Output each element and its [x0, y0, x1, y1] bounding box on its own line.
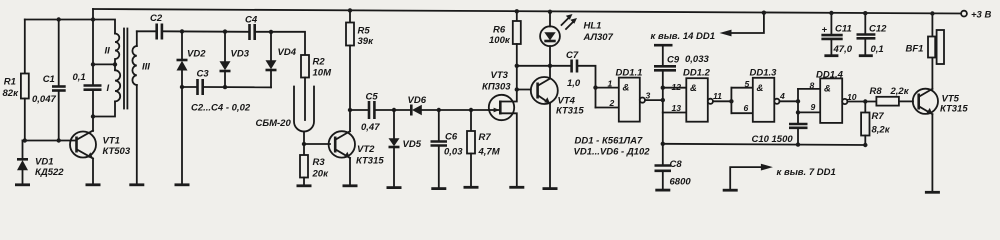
svg-text:DD1.3: DD1.3	[750, 67, 778, 78]
svg-text:R7: R7	[872, 111, 885, 122]
wire DD1.4 output	[847, 101, 876, 103]
svg-text:0,047: 0,047	[32, 94, 56, 105]
svg-text:к выв. 14 DD1: к выв. 14 DD1	[651, 31, 716, 42]
svg-text:R7: R7	[479, 132, 492, 143]
wire to pin 7 DD1 with arrow and ground	[730, 164, 836, 190]
svg-text:6: 6	[744, 103, 749, 113]
node DD1.3 inputs	[730, 88, 732, 114]
svg-text:13: 13	[672, 103, 682, 113]
gate DD1.2	[672, 67, 723, 121]
gate DD1.4	[810, 69, 857, 123]
diode VD3	[220, 32, 250, 88]
LED HL1 АЛ307	[540, 12, 613, 66]
svg-text:к выв. 7 DD1: к выв. 7 DD1	[777, 167, 836, 178]
svg-text:2,2к: 2,2к	[890, 86, 910, 97]
wire top rail +3V	[93, 9, 964, 14]
transistor VT4 КТ315	[531, 66, 585, 188]
capacitor C8	[655, 113, 692, 189]
wire multiplier bottom run	[182, 86, 196, 88]
node C1 top junction	[57, 17, 61, 21]
wire VD2 to ground	[181, 87, 183, 184]
svg-text:КТ315: КТ315	[940, 104, 968, 115]
wire VT2 collector up	[349, 110, 351, 131]
node collector junction with winding I bottom	[91, 114, 95, 118]
svg-text:0,03: 0,03	[444, 147, 463, 158]
svg-text:100к: 100к	[489, 35, 511, 46]
svg-text:20к: 20к	[312, 169, 330, 180]
transistor VT3 КП303	[482, 70, 517, 186]
capacitor C6	[431, 110, 464, 187]
svg-text:5: 5	[745, 79, 750, 89]
wire DD1.2 input pin 12	[663, 87, 687, 89]
svg-text:C1: C1	[43, 74, 55, 85]
ground C12	[859, 54, 873, 57]
ground VD1	[15, 183, 30, 186]
ground pin7 wire	[723, 189, 738, 192]
wire VT5 emitter to ground	[931, 114, 933, 191]
svg-text:10: 10	[847, 92, 857, 102]
svg-text:C3: C3	[197, 69, 210, 80]
wire VT2 emitter to ground	[349, 158, 351, 185]
ground VT1 emitter	[86, 183, 101, 186]
svg-text:C6: C6	[445, 132, 458, 143]
svg-text:82к: 82к	[3, 88, 20, 99]
diode VD1 КД522	[17, 141, 64, 184]
svg-text:КП303: КП303	[482, 82, 511, 93]
ground C11	[824, 54, 838, 57]
wire VT1 emitter to ground	[92, 159, 94, 184]
wire DD1.2 output to node	[713, 100, 731, 102]
svg-text:&: &	[690, 83, 697, 94]
svg-text:КТ503: КТ503	[103, 146, 131, 157]
svg-text:2: 2	[609, 98, 615, 108]
wire to VT2 base	[304, 143, 330, 145]
svg-text:КТ315: КТ315	[556, 106, 584, 117]
wire C5 run	[350, 109, 368, 111]
wire DD1.3 input pin 5	[731, 87, 752, 89]
svg-text:DD1.1: DD1.1	[616, 67, 643, 78]
capacitor C11	[821, 13, 852, 55]
gate DD1.3	[744, 67, 786, 122]
svg-text:DD1.2: DD1.2	[683, 67, 711, 78]
transistor VT1 КТ503	[70, 131, 131, 159]
svg-text:10M: 10M	[313, 68, 333, 79]
svg-text:VD4: VD4	[278, 47, 297, 58]
svg-text:0,033: 0,033	[685, 54, 709, 65]
node DD1.4 inputs / C10	[797, 89, 799, 123]
resistor R8	[870, 86, 914, 106]
svg-text:1500: 1500	[772, 134, 794, 145]
svg-text:R8: R8	[870, 86, 883, 97]
svg-text:C9: C9	[667, 55, 680, 66]
svg-text:VT1: VT1	[103, 136, 120, 147]
svg-text:R2: R2	[313, 57, 326, 68]
svg-text:I: I	[107, 83, 110, 94]
svg-text:9: 9	[811, 102, 816, 112]
node tube cathode / R3 / VT2 base	[302, 142, 306, 146]
svg-text:C12: C12	[869, 23, 887, 34]
capacitor 0,1	[73, 72, 102, 90]
svg-text:8,2к: 8,2к	[872, 125, 891, 136]
wire DD1.1 output	[645, 99, 663, 101]
svg-text:VD2: VD2	[187, 49, 206, 60]
transformer core	[123, 29, 125, 109]
diode VD5	[389, 110, 422, 186]
resistor R7 8,2к	[861, 102, 891, 146]
wire DD1.2 input pin 13	[663, 112, 687, 114]
svg-text:DD1 - К561ЛА7: DD1 - К561ЛА7	[575, 135, 644, 146]
wire C4 to R2 corner	[256, 32, 305, 55]
svg-text:C2: C2	[150, 13, 163, 24]
svg-text:VD1...VD6 - Д102: VD1...VD6 - Д102	[574, 147, 651, 158]
svg-text:+: +	[822, 24, 828, 35]
svg-text:VD1: VD1	[35, 157, 53, 168]
wire base bus R1/C1 to VT1	[23, 140, 77, 142]
svg-text:DD1.4: DD1.4	[816, 69, 844, 80]
wire DD1.4 input pin 8	[798, 88, 820, 90]
capacitor C12	[857, 13, 888, 55]
capacitor C2	[150, 13, 163, 40]
transformer T1 winding I	[107, 64, 121, 101]
wire C3 to VD4 bottom	[204, 86, 271, 88]
ground R7	[464, 186, 479, 189]
capacitor C4	[245, 15, 258, 41]
wire C7 to DD1.1 inputs	[578, 66, 595, 108]
svg-text:0,1: 0,1	[73, 72, 86, 83]
svg-text:КТ315: КТ315	[356, 156, 384, 167]
wire riser below 0,1 to VT1 collector	[92, 91, 94, 131]
capacitor C9	[654, 45, 709, 87]
svg-text:C7: C7	[566, 50, 579, 61]
svg-text:8: 8	[810, 81, 815, 91]
node junction riser/loop-top	[91, 17, 95, 21]
svg-text:II: II	[105, 46, 111, 57]
svg-text:HL1: HL1	[584, 21, 602, 32]
node +3V terminal	[961, 11, 967, 17]
wire C5 to VD6	[376, 109, 411, 111]
wire DD1.3 input pin 6	[731, 112, 752, 114]
transformer T1 winding II	[105, 34, 120, 64]
Geiger tube СБМ-20	[256, 87, 315, 145]
svg-text:VD5: VD5	[403, 139, 422, 150]
svg-text:0,1: 0,1	[871, 44, 884, 55]
buzzer BF1	[906, 14, 945, 65]
svg-text:VT3: VT3	[491, 70, 509, 81]
wire to pin 14 DD1 with arrow	[651, 13, 764, 42]
wire DD1.4 input pin 9	[798, 111, 820, 113]
svg-text:12: 12	[672, 82, 682, 92]
svg-text:&: &	[757, 83, 764, 94]
svg-text:&: &	[824, 83, 831, 94]
resistor R1	[3, 20, 29, 141]
diode VD2	[177, 31, 207, 87]
svg-text:VT2: VT2	[357, 144, 375, 155]
capacitor C5	[361, 92, 380, 134]
svg-text:C10: C10	[752, 134, 770, 145]
ground winding III	[129, 183, 144, 186]
svg-text:11: 11	[713, 91, 722, 101]
node DD1.1 out / DD1.2 inputs / C8	[662, 88, 664, 113]
transistor VT2 КТ315	[329, 131, 385, 166]
ground VD2	[175, 183, 190, 186]
resistor R7 4,7M	[467, 110, 501, 186]
svg-text:КД522: КД522	[35, 167, 64, 178]
svg-text:C4: C4	[245, 15, 258, 26]
ground VT2 emitter	[343, 184, 358, 187]
svg-text:C8: C8	[670, 159, 683, 170]
wire VT5 collector to BF1	[931, 58, 933, 89]
svg-text:4: 4	[779, 91, 785, 101]
capacitor C1	[32, 20, 66, 141]
svg-text:АЛ307: АЛ307	[583, 32, 614, 43]
wire DD1.1 input pin 1	[596, 87, 619, 89]
svg-text:6800: 6800	[670, 177, 692, 188]
capacitor C7	[566, 50, 581, 89]
svg-text:&: &	[623, 83, 630, 94]
wire winding I bottom to VT1 collector	[93, 101, 115, 116]
svg-text:0,47: 0,47	[361, 122, 380, 133]
svg-text:VD3: VD3	[231, 49, 250, 60]
capacitor C10	[752, 124, 808, 145]
svg-text:C5: C5	[366, 92, 379, 103]
wire DD1.1 input pin 2	[596, 107, 619, 109]
ground C6	[431, 187, 446, 190]
ground VT5 emitter	[925, 191, 940, 194]
resistor R5	[346, 10, 374, 110]
wire multiplier top run	[137, 30, 156, 32]
gate DD1.1	[608, 67, 651, 121]
wire DD1.3 output to node	[780, 100, 799, 102]
wire winding III bottom to ground	[136, 85, 138, 184]
ground VT4 emitter	[543, 187, 558, 190]
wire feedback C8/C10/R7	[663, 144, 866, 145]
svg-text:C2...C4 - 0,02: C2...C4 - 0,02	[191, 103, 251, 114]
svg-text:R3: R3	[313, 157, 326, 168]
wire riser from rail to oscillator loop	[92, 9, 94, 85]
svg-text:1,0: 1,0	[567, 78, 581, 89]
svg-text:1: 1	[608, 79, 613, 89]
resistor R2	[301, 55, 332, 120]
svg-text:VD6: VD6	[408, 95, 427, 106]
diode VD6	[408, 95, 489, 116]
diode VD4	[266, 32, 297, 87]
capacitor C3	[197, 69, 210, 96]
svg-text:4,7M: 4,7M	[478, 147, 501, 158]
resistor R3	[300, 144, 329, 185]
svg-text:C11: C11	[835, 23, 852, 34]
wire VT3 drain node to VT4 base	[517, 89, 531, 91]
wire R6 node to HL1/VT4 collector and C7	[517, 65, 571, 67]
svg-text:47,0: 47,0	[833, 44, 853, 55]
wire C2 to C4	[163, 30, 248, 33]
svg-text:R1: R1	[4, 77, 16, 88]
ground C8	[655, 189, 670, 192]
svg-text:III: III	[142, 62, 150, 73]
wire windings II/I junction to riser	[93, 63, 115, 65]
svg-text:+3 В: +3 В	[971, 10, 991, 21]
wire loop top	[25, 20, 115, 34]
transformer T1 winding III	[132, 31, 150, 85]
ground R3	[297, 184, 312, 187]
svg-text:39к: 39к	[358, 36, 375, 47]
resistor R6	[489, 11, 521, 89]
svg-text:BF1: BF1	[906, 44, 924, 55]
transistor VT5 КТ315	[913, 89, 969, 115]
ground VD5	[387, 186, 402, 189]
svg-text:СБМ-20: СБМ-20	[256, 118, 292, 129]
ground VT3 source	[509, 186, 524, 189]
